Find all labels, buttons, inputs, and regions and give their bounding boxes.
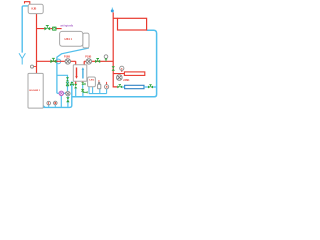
svg-text:2JM1: 2JM1 bbox=[123, 79, 130, 82]
svg-text:1JK1 1: 1JK1 1 bbox=[64, 38, 72, 41]
svg-text:1JK2: 1JK2 bbox=[89, 80, 95, 82]
svg-text:BOJLER 1: BOJLER 1 bbox=[29, 90, 40, 92]
svg-text:P10B: P10B bbox=[85, 55, 91, 58]
svg-text:anti-legionella: anti-legionella bbox=[60, 25, 73, 28]
svg-text:KJB: KJB bbox=[32, 8, 37, 11]
svg-text:P10B: P10B bbox=[64, 55, 70, 58]
